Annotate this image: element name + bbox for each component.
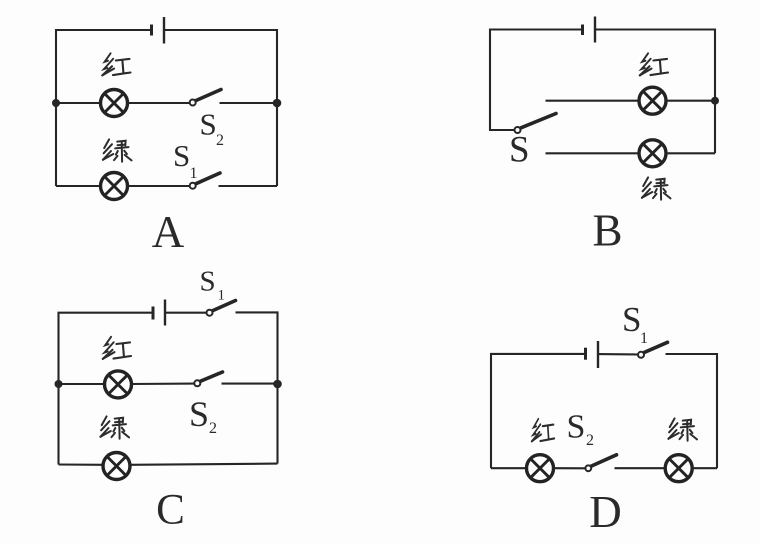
svg-text:S: S bbox=[622, 300, 641, 339]
label 红 (red) circuit C bbox=[103, 337, 131, 359]
label 绿 (green) circuit B bbox=[642, 177, 671, 199]
switch S1 pivot bbox=[207, 310, 213, 316]
svg-text:S: S bbox=[200, 266, 216, 298]
switch S1 pivot bbox=[638, 352, 644, 358]
label 红 (red) circuit A bbox=[102, 53, 130, 75]
svg-text:S: S bbox=[567, 409, 586, 446]
battery D short plate bbox=[584, 348, 587, 360]
node B right junction bbox=[711, 97, 719, 105]
battery D long plate bbox=[597, 341, 599, 368]
wire B top-left down to switch bbox=[490, 30, 582, 131]
svg-text:S: S bbox=[200, 107, 217, 142]
wire D bottom between S2 and green lamp bbox=[615, 467, 666, 469]
wire C top-right bbox=[236, 312, 278, 463]
wire A top-left bbox=[56, 30, 151, 186]
svg-text:1: 1 bbox=[218, 288, 226, 304]
wire B top-right bbox=[595, 30, 715, 154]
wire A mid between lamp and S2 bbox=[127, 102, 190, 104]
wire A bottom between lamp and S1 bbox=[127, 185, 190, 187]
svg-text:2: 2 bbox=[586, 432, 594, 449]
node A right junction bbox=[273, 99, 282, 108]
switch S1 blade bbox=[213, 301, 236, 311]
lamp green D bbox=[665, 455, 692, 482]
lamp green A bbox=[101, 173, 128, 200]
switch S2 pivot bbox=[190, 100, 196, 106]
svg-text:2: 2 bbox=[216, 132, 224, 149]
battery C long plate bbox=[164, 300, 166, 326]
svg-text:2: 2 bbox=[209, 420, 217, 437]
svg-text:S: S bbox=[189, 394, 209, 434]
switch S2 blade bbox=[196, 90, 221, 101]
lamp red C bbox=[105, 371, 132, 398]
switch S2 blade bbox=[592, 455, 617, 466]
lamp red B bbox=[639, 87, 666, 114]
svg-text:S: S bbox=[509, 130, 530, 171]
switch S2 blade bbox=[201, 372, 223, 381]
svg-text:S: S bbox=[173, 138, 190, 173]
switch S2 pivot bbox=[585, 465, 591, 471]
lamp red A bbox=[101, 90, 128, 117]
label 绿 (green) circuit A bbox=[103, 139, 132, 161]
svg-text:C: C bbox=[156, 487, 185, 534]
wire B green branch left bbox=[546, 152, 640, 154]
battery C short plate bbox=[152, 307, 155, 320]
lamp green B bbox=[639, 140, 666, 167]
wire A mid-right bbox=[220, 102, 278, 104]
wire C top-left bbox=[59, 313, 154, 465]
wire A top-right bbox=[164, 30, 277, 186]
switch S1 blade bbox=[196, 173, 220, 184]
label 绿 (green) circuit C bbox=[100, 416, 129, 438]
wire C mid-left bbox=[59, 383, 105, 385]
lamp red D bbox=[527, 455, 554, 482]
wire C top between battery and S1 bbox=[165, 312, 206, 314]
battery A long plate bbox=[163, 17, 165, 44]
switch S blade bbox=[521, 114, 556, 128]
svg-text:D: D bbox=[589, 487, 622, 537]
svg-text:A: A bbox=[152, 207, 185, 257]
wire B red branch left bbox=[546, 100, 640, 102]
svg-text:1: 1 bbox=[640, 330, 648, 347]
switch S1 pivot bbox=[190, 183, 196, 189]
wire B red branch right bbox=[666, 100, 715, 102]
battery A short plate bbox=[150, 25, 153, 36]
wire A mid-left bbox=[56, 102, 101, 104]
wire D bottom-left bbox=[491, 467, 527, 469]
wire C bottom-left bbox=[59, 463, 104, 465]
battery B short plate bbox=[581, 25, 584, 36]
svg-text:B: B bbox=[592, 206, 622, 256]
node C right junction bbox=[273, 380, 282, 389]
label 红 (red) circuit D bbox=[532, 419, 555, 442]
svg-text:1: 1 bbox=[190, 165, 198, 182]
wire C bottom-right bbox=[130, 464, 278, 465]
battery B long plate bbox=[594, 17, 596, 43]
wire D top between battery and S1 bbox=[598, 353, 638, 355]
wire A bottom-right bbox=[219, 185, 278, 187]
switch S1 blade bbox=[645, 342, 668, 352]
node C left junction bbox=[55, 380, 63, 388]
lamp green C bbox=[103, 453, 130, 480]
wire A bottom-left bbox=[56, 185, 101, 187]
node A left junction bbox=[52, 99, 60, 107]
wire D top-left bbox=[491, 354, 585, 468]
wire D bottom-right bbox=[692, 467, 717, 469]
switch S pivot bbox=[515, 127, 521, 133]
switch S2 pivot bbox=[194, 380, 200, 386]
wire C mid between lamp and S2 bbox=[131, 383, 194, 385]
wire D top-right bbox=[666, 354, 718, 468]
wire B green branch right bbox=[666, 152, 715, 154]
wire D bottom between red lamp and S2 bbox=[553, 467, 585, 469]
wire C mid-right bbox=[222, 383, 278, 385]
label 红 (red) circuit B bbox=[640, 53, 668, 75]
label 绿 (green) circuit D bbox=[668, 418, 697, 440]
